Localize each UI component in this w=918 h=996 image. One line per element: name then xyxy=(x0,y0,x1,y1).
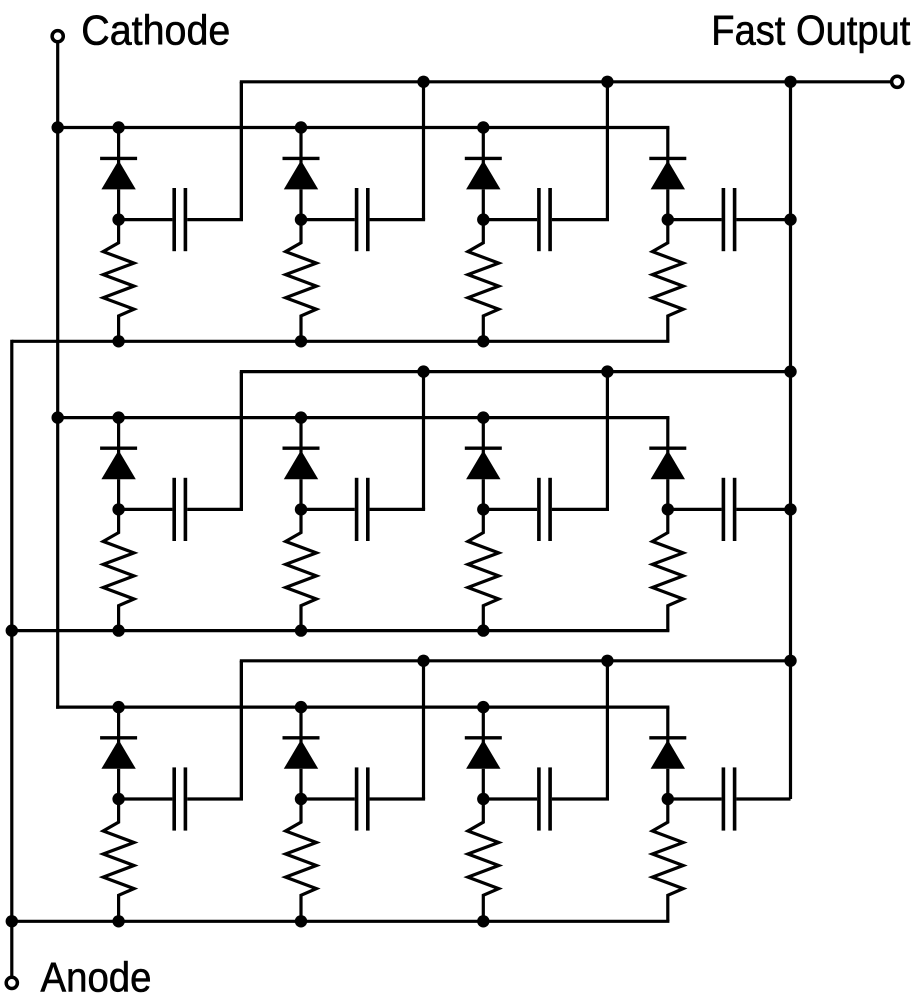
wire anode bus bottom row xyxy=(12,920,670,923)
junction trunk / C14 xyxy=(784,213,796,225)
wire anode rail xyxy=(10,340,13,978)
junction trunk / C24 xyxy=(784,503,796,515)
junction node D21/R21/C21 xyxy=(112,503,124,515)
junction fast bus bottom row / riser 2 xyxy=(417,655,429,667)
junction node D11/R11/C11 xyxy=(112,213,124,225)
resistor R33 xyxy=(468,799,499,921)
resistor R12 xyxy=(286,220,317,342)
photodiode D14 xyxy=(649,128,686,220)
capacitor C22 xyxy=(301,478,425,541)
resistor R34 xyxy=(652,799,683,921)
wire fast bus bottom row xyxy=(240,661,791,799)
junction fast bus bottom row / trunk xyxy=(784,655,796,667)
junction R12 anode-bus node xyxy=(295,335,307,347)
junction fast bus top row / trunk xyxy=(784,76,796,88)
photodiode D23 xyxy=(465,418,502,510)
resistor R14 xyxy=(652,220,683,342)
junction R22 anode-bus node xyxy=(295,624,307,636)
junction node D31/R31/C31 xyxy=(112,793,124,805)
wire cathode bus bottom row xyxy=(56,705,669,708)
photodiode D32 xyxy=(283,707,320,799)
resistor R13 xyxy=(468,220,499,342)
svg-text:Cathode: Cathode xyxy=(81,7,230,54)
junction D11 cathode node xyxy=(112,121,124,133)
junction R13 anode-bus node xyxy=(477,335,489,347)
wire cathode bus top row xyxy=(58,126,670,129)
resistor R21 xyxy=(103,509,134,630)
wire fast-output trunk xyxy=(789,80,792,799)
wire anode bus middle row xyxy=(12,629,670,632)
photodiode D12 xyxy=(283,128,320,220)
junction node D24/R24/C24 xyxy=(662,503,674,515)
resistor R32 xyxy=(286,799,317,921)
wire fast output lead xyxy=(791,80,892,83)
junction fast bus middle row / riser 2 xyxy=(417,365,429,377)
junction D22 cathode node xyxy=(295,411,307,423)
capacitor C13 xyxy=(483,188,609,251)
junction cathode rail / middle row bus xyxy=(52,411,64,423)
photodiode D34 xyxy=(649,707,686,799)
resistor R11 xyxy=(103,220,134,342)
junction R11 anode-bus node xyxy=(112,335,124,347)
wire riser cell 12 to fast bus xyxy=(422,82,425,220)
junction node D13/R13/C13 xyxy=(477,213,489,225)
junction node D34/R34/C34 xyxy=(662,793,674,805)
wire riser cell 21 to fast bus xyxy=(240,372,243,510)
junction D33 cathode node xyxy=(477,701,489,713)
wire riser cell 32 to fast bus xyxy=(422,661,425,799)
wire cathode rail xyxy=(56,42,59,709)
resistor R31 xyxy=(103,799,134,921)
junction D13 cathode node xyxy=(477,121,489,133)
capacitor C12 xyxy=(301,188,425,251)
photodiode D24 xyxy=(649,418,686,510)
junction R23 anode-bus node xyxy=(477,624,489,636)
label Fast Output xyxy=(711,7,910,54)
junction R31 anode-bus node xyxy=(112,915,124,927)
junction D21 cathode node xyxy=(112,411,124,423)
junction cathode rail / top row bus xyxy=(52,121,64,133)
junction D12 cathode node xyxy=(295,121,307,133)
junction fast bus middle row / trunk xyxy=(784,365,796,377)
wire fast bus top row xyxy=(240,82,791,220)
junction node D14/R14/C14 xyxy=(662,213,674,225)
capacitor C14 xyxy=(668,188,791,251)
fast output terminal xyxy=(892,76,903,87)
capacitor C33 xyxy=(483,767,609,830)
capacitor C24 xyxy=(668,478,791,541)
label Anode xyxy=(41,953,152,996)
photodiode D11 xyxy=(100,128,137,220)
junction R32 anode-bus node xyxy=(295,915,307,927)
photodiode D21 xyxy=(100,418,137,510)
photodiode D22 xyxy=(283,418,320,510)
anode terminal xyxy=(6,977,17,988)
wire riser cell 22 to fast bus xyxy=(422,372,425,510)
junction node D23/R23/C23 xyxy=(477,503,489,515)
junction fast bus middle row / riser 3 xyxy=(601,365,613,377)
junction fast bus top row / riser 2 xyxy=(417,76,429,88)
wire anode bus top row xyxy=(12,340,670,343)
wire riser cell 11 to fast bus xyxy=(240,82,243,220)
junction D23 cathode node xyxy=(477,411,489,423)
junction node D12/R12/C12 xyxy=(295,213,307,225)
svg-text:Anode: Anode xyxy=(41,953,152,996)
junction anode rail / bottom row bus xyxy=(6,915,18,927)
wire cathode bus middle row xyxy=(58,416,670,419)
junction R33 anode-bus node xyxy=(477,915,489,927)
photodiode D13 xyxy=(465,128,502,220)
wire riser cell 33 to fast bus xyxy=(606,661,609,799)
junction node D32/R32/C32 xyxy=(295,793,307,805)
wire riser cell 13 to fast bus xyxy=(606,82,609,220)
junction node D22/R22/C22 xyxy=(295,503,307,515)
photodiode D33 xyxy=(465,707,502,799)
junction node D33/R33/C33 xyxy=(477,793,489,805)
resistor R24 xyxy=(652,509,683,630)
junction D32 cathode node xyxy=(295,701,307,713)
junction fast bus bottom row / riser 3 xyxy=(601,655,613,667)
capacitor C11 xyxy=(119,188,243,251)
resistor R23 xyxy=(468,509,499,630)
svg-text:Fast Output: Fast Output xyxy=(711,7,910,54)
label Cathode xyxy=(81,7,230,54)
capacitor C23 xyxy=(483,478,609,541)
junction D31 cathode node xyxy=(112,701,124,713)
cathode terminal xyxy=(52,31,63,42)
capacitor C31 xyxy=(119,767,243,830)
junction R21 anode-bus node xyxy=(112,624,124,636)
wire riser cell 31 to fast bus xyxy=(240,661,243,799)
photodiode D31 xyxy=(100,707,137,799)
junction anode rail / middle row bus xyxy=(6,624,18,636)
wire riser cell 23 to fast bus xyxy=(606,372,609,510)
capacitor C32 xyxy=(301,767,425,830)
wire fast bus middle row xyxy=(240,372,791,510)
capacitor C34 xyxy=(668,767,791,830)
junction fast bus top row / riser 3 xyxy=(601,76,613,88)
capacitor C21 xyxy=(119,478,243,541)
resistor R22 xyxy=(286,509,317,630)
